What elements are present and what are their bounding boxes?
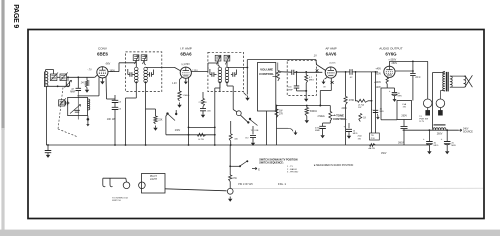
resistor 22K (155, 109, 157, 116)
IF2 trimmer A (215, 55, 221, 61)
svg-text:SWITCH: SWITCH (112, 200, 121, 202)
svg-text:AF AMP: AF AMP (325, 47, 336, 51)
svg-text:MMF: MMF (288, 89, 293, 91)
V4 grid wires down (371, 72, 373, 101)
pilot light box (142, 174, 166, 194)
cap 40MFD left (401, 126, 408, 128)
IF1 primary coil (135, 61, 137, 68)
svg-text:47Ω: 47Ω (232, 178, 237, 180)
svg-text:+45V: +45V (375, 68, 381, 71)
bottom bus wire (46, 144, 429, 146)
wire C1A-C1B (57, 76, 60, 78)
svg-text:MFD: MFD (380, 111, 385, 113)
svg-text:22 Ω: 22 Ω (415, 77, 420, 79)
capacitor .005 (200, 109, 206, 111)
svg-text:150V: 150V (381, 153, 387, 155)
bypass caps stack (114, 95, 116, 100)
svg-text:230V: 230V (175, 130, 181, 132)
wire antenna top (45, 70, 47, 72)
resistor R-osc-grid (86, 77, 88, 81)
svg-text:1 - TV: 1 - TV (287, 166, 293, 168)
ground V1 (101, 78, 103, 79)
resistor 1K (359, 101, 361, 114)
tube V3 6AV6 (325, 67, 336, 78)
plug P1 (423, 99, 432, 108)
V2 screen wire (188, 78, 190, 146)
grid resistor 470K (355, 71, 357, 73)
svg-text:6AV6: 6AV6 (326, 52, 337, 57)
svg-text:AA 2W: AA 2W (369, 147, 375, 150)
IF1 trimmer B (141, 55, 147, 61)
loop antenna L1 (44, 72, 46, 88)
interlock plug (103, 178, 106, 187)
cap below switch (252, 126, 254, 134)
volume control box (258, 63, 276, 112)
scanner edge strip left (1, 0, 4, 130)
wire OPT top (427, 61, 429, 72)
cap .02 screen (412, 61, 414, 73)
resistor in bus (370, 144, 376, 147)
svg-text:MEG: MEG (309, 80, 314, 82)
wire IF2 sec top out (227, 66, 247, 68)
detector can (dashed) (287, 61, 316, 96)
resistor 500K (306, 106, 308, 108)
svg-text:120V: 120V (375, 86, 381, 89)
wire IF2 primary bottom (219, 87, 221, 92)
svg-text:PAGE 9: PAGE 9 (12, 4, 19, 28)
svg-text:6BA6: 6BA6 (180, 52, 192, 57)
resistor 470 on h-wire (355, 100, 358, 102)
svg-text:MMF: MMF (70, 92, 76, 94)
audio takeoff line (246, 60, 248, 95)
wire V1 pin3 (105, 77, 108, 99)
IF can 1 (dashed) (126, 52, 162, 92)
svg-text:FIG. 1: FIG. 1 (278, 182, 286, 186)
OPT primary (443, 72, 445, 92)
link y127 (189, 126, 215, 128)
svg-text:AUDIO OUTPUT: AUDIO OUTPUT (379, 47, 402, 51)
switch S2 (230, 165, 239, 167)
svg-text:2 MEG: 2 MEG (318, 116, 325, 118)
ground left of VC (247, 96, 249, 98)
IF2 primary trimmer cap (210, 74, 212, 76)
svg-text:22K: 22K (158, 120, 163, 122)
det cap input (279, 71, 282, 73)
switch S1a (241, 115, 248, 122)
det resistor 47K (305, 75, 308, 83)
svg-text:MFD: MFD (353, 133, 358, 135)
V3 nc marks (331, 81, 334, 84)
node switch terminal (236, 111, 241, 116)
svg-text:MMF: MMF (315, 130, 321, 132)
svg-text:CONTROL: CONTROL (333, 117, 347, 121)
IF2 trimmer B (224, 55, 230, 61)
speaker magnet X (465, 75, 473, 87)
wire IF2 sec to switch (227, 85, 233, 87)
filter choke L2 (433, 128, 446, 130)
speaker voice coil (450, 75, 464, 77)
electrolytic C20 (446, 130, 448, 141)
V2 cathode gnd (185, 78, 187, 79)
coupling cap .02 (336, 71, 350, 73)
svg-text:MFD: MFD (398, 95, 403, 97)
svg-text:(1)V25: (1)V25 (330, 62, 337, 64)
wire IF1 primary bottom (135, 92, 137, 98)
wire V1 cathode loop (98, 77, 100, 96)
border frame (28, 30, 484, 219)
wire V2 plate to IF2 (191, 70, 208, 72)
resistor 470K plate load (345, 71, 347, 73)
svg-text:TO C4B: TO C4B (251, 130, 259, 132)
wire left switch string (229, 145, 231, 175)
svg-text:SOURCE: SOURCE (463, 131, 473, 133)
svg-text:-.7V: -.7V (88, 70, 93, 72)
trimmer C1B (60, 74, 67, 81)
OPT secondary (450, 76, 452, 87)
wire V1 plate to IF1 (108, 71, 119, 73)
IF1 secondary coil (143, 61, 145, 64)
resistor H 2W (197, 133, 205, 136)
tube V2 6BA6 (180, 67, 191, 78)
svg-text:CONTROL: CONTROL (259, 72, 274, 76)
svg-text:2 - RADIO: 2 - RADIO (287, 168, 297, 171)
junction dots bus (114, 144, 116, 146)
resistor 27K 1W (275, 109, 278, 118)
gang dashed link (58, 88, 63, 130)
svg-text:360V: 360V (398, 142, 404, 145)
wire osc box left (65, 102, 68, 104)
wire plate down to OPT (427, 61, 429, 99)
IF can 2 (dashed) (208, 52, 244, 91)
wire tone bus (277, 105, 331, 107)
wire V4 plate top (388, 61, 390, 66)
svg-text:LIGHT: LIGHT (150, 178, 158, 181)
tube V4 6Y6G (384, 66, 395, 77)
svg-text:(+)170V: (+)170V (182, 64, 191, 66)
svg-text:3 - PHONO: 3 - PHONO (287, 172, 298, 174)
filament wire (165, 189, 227, 191)
svg-text:260V: 260V (401, 115, 407, 118)
svg-text:270 .5W: 270 .5W (199, 102, 208, 104)
resistor 27ohm (202, 92, 204, 99)
svg-text:I.F. AMP: I.F. AMP (180, 47, 192, 51)
wire to grid cap (67, 76, 95, 78)
oscillator coil box (68, 97, 88, 115)
page fold line (230, 187, 483, 189)
IF1 trimmer A (133, 55, 139, 61)
svg-text:260V: 260V (437, 132, 443, 135)
terminal T1 (227, 188, 233, 194)
OPT core (446, 72, 448, 92)
svg-text:500KΩ: 500KΩ (310, 111, 317, 113)
svg-text:117V: 117V (419, 121, 424, 123)
oscillator coil (88, 99, 90, 110)
trimmer C3 (59, 100, 65, 106)
svg-text:H 2W: H 2W (198, 139, 204, 141)
tube V1 6BE6 (97, 67, 108, 78)
svg-text:27K: 27K (279, 113, 284, 115)
svg-text:CONV: CONV (98, 47, 108, 51)
band switch S1b (166, 112, 168, 114)
box L5A (397, 101, 412, 120)
wire IF1 sec top to V2 grid (146, 66, 148, 68)
svg-text:GO: GO (245, 138, 249, 140)
wire 22K top (145, 108, 155, 110)
switch phono (277, 127, 289, 129)
label 240V SOURCE (459, 129, 463, 131)
trimmer cap ant (66, 81, 69, 86)
svg-text:200V: 200V (375, 73, 381, 76)
svg-text:★ MEASURED IN RADIO POSITION: ★ MEASURED IN RADIO POSITION (314, 164, 354, 167)
svg-text:P/N: P/N (371, 138, 375, 140)
IF1 secondary trimmer cap (148, 74, 149, 76)
IF2 secondary trimmer cap (231, 74, 232, 76)
svg-text:MFD: MFD (434, 145, 439, 147)
electrolytic 10MFD (348, 123, 350, 128)
svg-text:VOLUME: VOLUME (260, 67, 273, 71)
svg-text:6BE6: 6BE6 (97, 52, 109, 57)
svg-text:PIN 1 OF V25: PIN 1 OF V25 (238, 184, 253, 186)
svg-text:↑90V: ↑90V (105, 63, 111, 66)
wire prim bottom to plug (440, 90, 445, 92)
svg-text:240V: 240V (463, 129, 469, 131)
svg-text:MFD: MFD (451, 145, 456, 147)
V2 cathode resistor (180, 77, 182, 79)
terminal T2 (123, 182, 130, 189)
plug P2 (436, 99, 445, 108)
svg-text:1.2V: 1.2V (172, 83, 177, 85)
wire box bottom (403, 120, 405, 127)
link y135 with switch box (166, 134, 215, 136)
cap AVC to gnd (47, 145, 49, 151)
wire IF1 secondary down (AVC) (145, 92, 147, 145)
svg-text:10K 1W: 10K 1W (107, 118, 116, 121)
det gnd (297, 90, 307, 92)
wire VC bottom (266, 111, 268, 145)
svg-text:.1V: .1V (313, 55, 317, 58)
osc bottom terminal (87, 116, 89, 119)
V4 cathode RC (386, 77, 388, 78)
svg-text:1K: 1K (363, 118, 366, 120)
svg-text:470K: 470K (349, 100, 355, 102)
IF2 secondary coil (226, 61, 228, 67)
svg-text:260V: 260V (392, 62, 398, 65)
wire VC-right down (276, 106, 278, 146)
wire antenna down to bus (45, 86, 47, 145)
wire V3 down (330, 78, 332, 90)
trimmer C1A (50, 74, 57, 81)
resistor 440 (230, 121, 232, 134)
IF2 primary coil (217, 61, 219, 66)
terminal T3 (139, 182, 146, 189)
cap 4700MMF (329, 121, 331, 124)
box TB (370, 133, 380, 140)
volume pot (276, 71, 279, 82)
IF1 primary trimmer cap (128, 74, 130, 76)
svg-text:240V: 240V (342, 108, 348, 110)
svg-text:L5A: L5A (402, 103, 406, 106)
svg-text:SWITCH SEQUENCE:: SWITCH SEQUENCE: (259, 162, 284, 165)
wire prim top (441, 72, 445, 75)
det cap 100MMF (296, 72, 298, 86)
electrolytic C40 (428, 130, 430, 141)
B+ line (403, 129, 459, 131)
scanner edge strip bottom (0, 230, 500, 236)
svg-text:6Y6G: 6Y6G (385, 52, 397, 57)
V3 cathode gnd (325, 77, 328, 79)
